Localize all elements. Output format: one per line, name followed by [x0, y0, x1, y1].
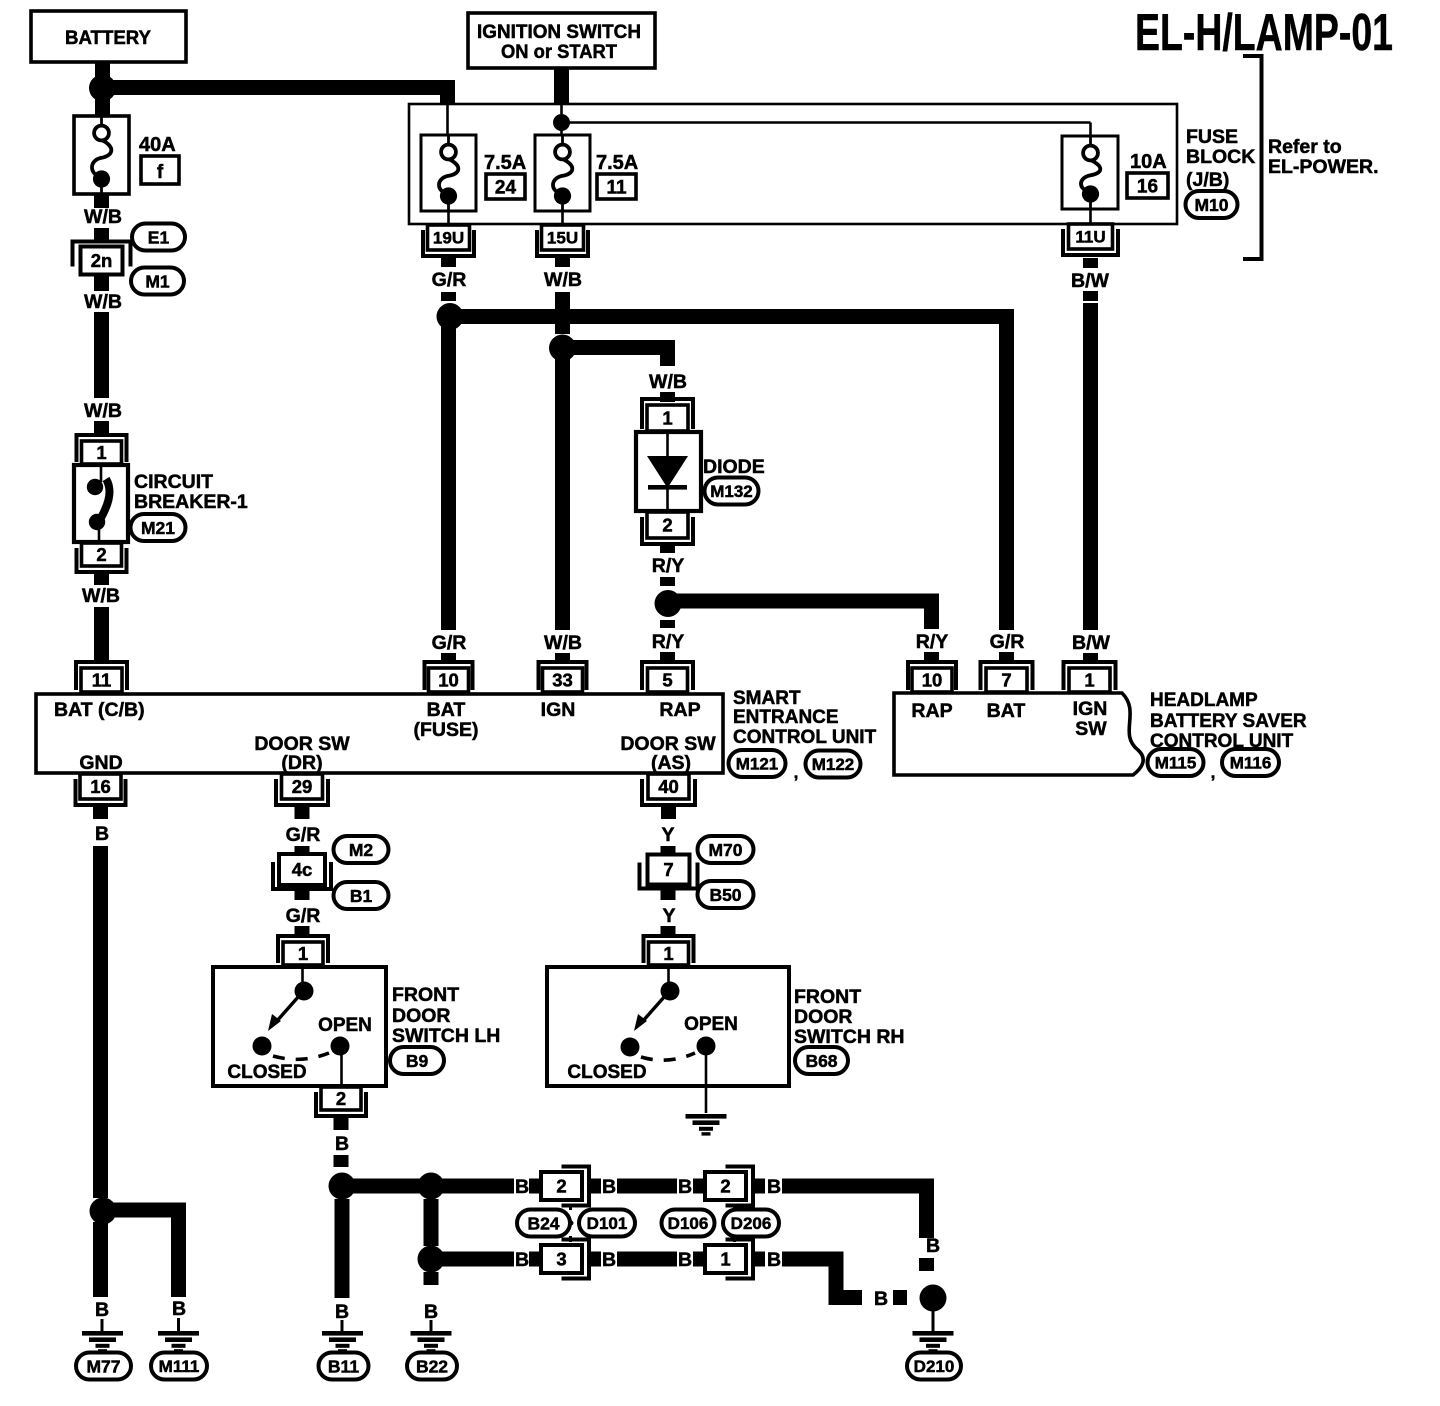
wire drop to fuse 16 [1089, 123, 1092, 137]
wire fuse 24 to 19U [447, 211, 450, 224]
svg-text:f: f [157, 162, 164, 183]
svg-text:G/R: G/R [990, 631, 1025, 653]
wire B stub [529, 1252, 541, 1267]
fuse 16 10A [1062, 136, 1118, 209]
svg-text:M2: M2 [349, 840, 374, 860]
svg-text:11: 11 [92, 670, 112, 691]
front door switch LH pin 2 [316, 1087, 366, 1116]
svg-text:BAT: BAT [427, 699, 466, 721]
svg-text:IGNITION SWITCH: IGNITION SWITCH [477, 21, 641, 43]
connector M21 [131, 514, 186, 541]
connector 5 RAP [642, 662, 693, 692]
fuse number 16 [1127, 173, 1168, 198]
svg-text:1: 1 [720, 1249, 730, 1270]
svg-text:EL-POWER.: EL-POWER. [1268, 156, 1379, 178]
wire fusible link to 2n [94, 194, 109, 208]
connector B1 [334, 882, 389, 909]
svg-text:SWITCH LH: SWITCH LH [392, 1025, 500, 1047]
svg-text:M77: M77 [86, 1356, 120, 1376]
wire B stub [589, 1179, 601, 1194]
front door switch RH pin 1 [644, 936, 694, 965]
svg-text:M116: M116 [1230, 754, 1272, 773]
node B junction D210 [920, 1285, 947, 1312]
connector 2n [73, 242, 131, 275]
svg-text:5: 5 [662, 670, 672, 691]
svg-text:RAP: RAP [659, 699, 700, 721]
connector 4c [273, 854, 331, 889]
wire B dash to node [893, 1290, 907, 1305]
headlamp connector 1 IGN SW [1064, 662, 1116, 692]
svg-text:,: , [794, 763, 799, 782]
wire B dash [334, 1155, 349, 1167]
wire stub to headlamp 10 [924, 652, 939, 662]
node B junction mid [418, 1173, 445, 1200]
svg-text:D106: D106 [668, 1214, 709, 1233]
wire GND stub [93, 805, 108, 819]
wire battery feed to fuse 24 [446, 104, 449, 135]
svg-text:11U: 11U [1075, 228, 1105, 247]
svg-text:W/B: W/B [544, 269, 582, 291]
wire stub to headlamp 7 [999, 652, 1014, 662]
svg-text:BAT (C/B): BAT (C/B) [54, 699, 145, 721]
svg-text:1: 1 [663, 943, 673, 964]
svg-text:G/R: G/R [286, 824, 321, 846]
svg-text:B68: B68 [805, 1051, 837, 1071]
connector D101 [579, 1210, 635, 1237]
svg-text:BREAKER-1: BREAKER-1 [134, 491, 248, 513]
svg-text:B/W: B/W [1071, 270, 1110, 292]
wire to fuse 11 [560, 128, 563, 136]
wire B dash [919, 1258, 934, 1271]
svg-text:W/B: W/B [544, 632, 582, 654]
connector B50 [698, 881, 754, 908]
svg-text:2: 2 [96, 544, 106, 565]
svg-text:M115: M115 [1155, 754, 1197, 773]
wire W/B from 15U [555, 292, 570, 334]
fuse number 24 [486, 174, 525, 199]
wire B ground run [93, 846, 108, 1198]
svg-text:FUSE: FUSE [1186, 126, 1238, 148]
svg-text:M122: M122 [812, 755, 855, 774]
wire 11U stub [1083, 258, 1098, 268]
node R/Y junction [655, 590, 682, 617]
svg-text:M21: M21 [141, 518, 175, 538]
svg-text:SMART: SMART [733, 688, 801, 709]
wire diode pin 2 stub [660, 543, 675, 553]
wire ignition inside fuse block [560, 104, 563, 114]
svg-text:16: 16 [90, 776, 111, 797]
svg-text:FRONT: FRONT [392, 984, 459, 1006]
svg-text:CLOSED: CLOSED [567, 1062, 646, 1083]
svg-text:FRONT: FRONT [794, 986, 861, 1008]
diode M132 [636, 432, 701, 511]
wire W/B to connector 11 [94, 607, 109, 650]
svg-text:SW: SW [1075, 718, 1107, 740]
wire B bus to drop [782, 1179, 934, 1194]
ground symbol door switch RH [686, 1114, 727, 1136]
ground symbol D210 [913, 1331, 954, 1353]
wire stub below 4c [295, 886, 310, 900]
node B junction row2 [418, 1246, 445, 1273]
fuse 24 7.5A [421, 135, 476, 211]
svg-text:OPEN: OPEN [684, 1014, 738, 1035]
svg-text:B: B [95, 823, 109, 845]
svg-text:Y: Y [661, 824, 674, 846]
wire stub to circuit breaker pin 1 [94, 421, 109, 433]
wire drop to M111 ground [171, 1203, 186, 1297]
wire B stub [693, 1252, 705, 1267]
wire stub to diode pin 1 [660, 392, 675, 402]
wire stub above 7 [661, 846, 676, 856]
wire DOOR SW DR stub [295, 805, 310, 819]
wire B bus [617, 1252, 677, 1267]
connector D106/D206 pin 2 [705, 1167, 753, 1206]
wire stub below 7 [661, 885, 676, 900]
svg-text:HEADLAMP: HEADLAMP [1150, 690, 1258, 711]
connector 16 GND [76, 774, 126, 805]
svg-text:40: 40 [658, 776, 679, 797]
ground M111 [151, 1353, 207, 1380]
wire stub to connector 10 [441, 653, 456, 662]
wire W/B down to SECU 33 [555, 348, 570, 630]
svg-text:IGN: IGN [541, 699, 576, 721]
connector 33 IGN [539, 662, 587, 692]
svg-text:BATTERY: BATTERY [65, 27, 151, 49]
svg-text:B: B [515, 1176, 529, 1198]
connector D106 [662, 1210, 715, 1237]
connector B9 [390, 1047, 444, 1074]
wire thin to ground M77 [101, 1319, 104, 1332]
svg-text:EL-H/LAMP-01: EL-H/LAMP-01 [1135, 4, 1393, 62]
svg-text:B: B [602, 1249, 616, 1271]
wire B drop right [919, 1179, 934, 1238]
svg-text:OPEN: OPEN [318, 1015, 372, 1036]
wire B dash below junction [424, 1272, 439, 1285]
svg-text:7: 7 [663, 859, 673, 880]
connector M116 [1222, 749, 1279, 776]
svg-text:SWITCH RH: SWITCH RH [794, 1026, 905, 1048]
svg-text:33: 33 [552, 670, 573, 691]
svg-text:W/B: W/B [82, 585, 120, 607]
ground B11 [319, 1353, 369, 1380]
svg-text:M1: M1 [145, 271, 170, 291]
svg-text:Refer to: Refer to [1268, 136, 1342, 158]
svg-text:B/W: B/W [1072, 632, 1111, 654]
svg-text:B: B [678, 1176, 692, 1198]
wire B bus row2 [431, 1252, 514, 1267]
connector 15U [537, 225, 588, 256]
svg-text:IGN: IGN [1073, 698, 1108, 720]
bracket refer to EL-POWER [1243, 56, 1262, 259]
svg-text:(FUSE): (FUSE) [414, 719, 479, 741]
svg-text:B50: B50 [709, 885, 741, 905]
svg-text:2: 2 [662, 515, 672, 536]
svg-text:2: 2 [336, 1088, 346, 1109]
wire stub to connector 33 [555, 653, 570, 662]
svg-text:E1: E1 [148, 227, 170, 247]
diode pin 2 [642, 512, 693, 544]
svg-text:B: B [515, 1249, 529, 1271]
svg-text:DOOR: DOOR [794, 1006, 853, 1028]
fusible link letter f [141, 156, 179, 184]
wire ignition switch feed [554, 68, 569, 104]
svg-text:R/Y: R/Y [652, 631, 685, 653]
wire stub below 2n [94, 275, 109, 291]
svg-text:G/R: G/R [286, 905, 321, 927]
wire R/Y drop [924, 594, 939, 629]
connector M1 [131, 268, 184, 295]
wire stub above connector 11 [94, 650, 109, 661]
wire 19U stub [441, 257, 456, 267]
ground D210 [907, 1353, 961, 1380]
svg-text:B22: B22 [416, 1356, 448, 1376]
svg-text:ENTRANCE: ENTRANCE [733, 707, 839, 728]
wire battery feed horizontal [103, 80, 456, 95]
wire to ground B11 [335, 1199, 350, 1298]
wire G/R upper dash [441, 292, 456, 301]
svg-text:ON or START: ON or START [501, 41, 617, 63]
connector D206 [723, 1210, 779, 1237]
fuse number 11 [597, 174, 636, 199]
connector B68 [795, 1047, 848, 1074]
wire W/B branch to diode [563, 340, 676, 355]
svg-text:B: B [678, 1249, 692, 1271]
svg-text:R/Y: R/Y [652, 555, 685, 577]
wire battery feed drop to fuse block [440, 81, 455, 104]
circuit breaker pin 2 [77, 543, 127, 572]
svg-text:7.5A: 7.5A [484, 152, 526, 174]
fusible link f 40A [74, 116, 129, 194]
wire B stub [589, 1252, 601, 1267]
svg-text:16: 16 [1137, 177, 1158, 198]
wire G/R down to SECU 10 [441, 317, 456, 631]
ground symbol B11 [322, 1331, 363, 1353]
svg-text:D206: D206 [731, 1214, 772, 1233]
ground symbol B22 [411, 1331, 452, 1353]
fuse block J/B outline [409, 104, 1177, 224]
wire thin to ground B11 [341, 1320, 344, 1332]
connector D106/D206 pin 1 [705, 1240, 753, 1279]
svg-text:,: , [1211, 763, 1216, 782]
wire switch LH pin 2 stub [334, 1118, 349, 1130]
svg-text:1: 1 [1084, 670, 1094, 691]
svg-text:D210: D210 [914, 1357, 955, 1376]
connector 19U [423, 225, 474, 256]
connector B24/D101 pin 2 [541, 1167, 589, 1206]
connector 7 body harness [640, 855, 698, 889]
svg-text:(AS): (AS) [651, 752, 691, 774]
svg-text:B: B [95, 1299, 109, 1321]
svg-text:B: B [424, 1301, 438, 1323]
connector 10 BAT FUSE [425, 662, 473, 692]
wire B stub [753, 1252, 765, 1267]
connector M122 [806, 751, 861, 778]
wire thin to ground M111 [177, 1318, 180, 1332]
wire B to dash [829, 1290, 862, 1305]
wire B bus short [782, 1252, 844, 1267]
wire B/W down to headlamp IGN SW [1083, 303, 1098, 630]
circuit breaker pin 1 [77, 435, 127, 464]
wire B bus row1 [342, 1179, 431, 1194]
wire B stub [693, 1179, 705, 1194]
svg-text:W/B: W/B [649, 371, 687, 393]
node ignition branch [553, 114, 570, 131]
svg-text:7.5A: 7.5A [596, 152, 638, 174]
wire branch to M111 [103, 1203, 186, 1218]
wire stub above 2n [94, 228, 109, 242]
wire fuse 16 to 11U [1089, 209, 1092, 223]
node B junction LH [329, 1173, 356, 1200]
wire thin to ground D210 [932, 1311, 935, 1332]
circuit breaker body [74, 465, 128, 542]
fuse 11 7.5A [535, 135, 590, 211]
connector 11U [1063, 224, 1118, 255]
svg-text:W/B: W/B [84, 291, 122, 313]
svg-text:RAP: RAP [911, 700, 952, 722]
wire G/R branch to headlamp BAT [450, 309, 1014, 324]
switch LH internals [253, 967, 350, 1086]
svg-text:BAT: BAT [987, 700, 1026, 722]
svg-text:CIRCUIT: CIRCUIT [134, 471, 213, 493]
headlamp connector 10 RAP [908, 662, 956, 692]
headlamp connector 7 BAT [981, 662, 1033, 692]
svg-text:M70: M70 [708, 840, 742, 860]
wire stub to switch RH pin 1 [661, 926, 676, 936]
svg-text:GND: GND [79, 752, 122, 774]
ground B22 [407, 1353, 457, 1380]
svg-text:1: 1 [96, 442, 106, 463]
wire B drop [829, 1252, 844, 1305]
connector M115 [1148, 749, 1204, 776]
svg-text:DIODE: DIODE [703, 456, 765, 478]
connector B24 [517, 1210, 570, 1237]
svg-text:10: 10 [438, 670, 459, 691]
connector 40 DOOR SW AS [642, 774, 695, 805]
smart entrance control unit box [36, 694, 723, 773]
wire battery stub [95, 62, 110, 78]
svg-text:CONTROL UNIT: CONTROL UNIT [733, 727, 877, 748]
svg-text:G/R: G/R [432, 632, 467, 654]
wire W/B drop to diode [660, 341, 675, 366]
connector E1 [132, 224, 185, 251]
svg-text:(DR): (DR) [281, 752, 322, 774]
svg-text:M111: M111 [159, 1357, 200, 1376]
wire fuse 11 to 15U [561, 211, 564, 224]
wire W/B to circuit breaker [94, 312, 109, 398]
front door switch RH box B68 [547, 967, 789, 1086]
wire DOOR SW AS stub [661, 805, 676, 819]
ground symbol M77 [82, 1331, 123, 1353]
svg-text:D101: D101 [587, 1214, 628, 1233]
svg-text:B: B [335, 1133, 349, 1155]
wire R/Y dash [660, 577, 675, 586]
svg-text:15U: 15U [547, 229, 578, 248]
ignition switch box [468, 13, 655, 68]
node G/R junction [437, 303, 464, 330]
svg-text:4c: 4c [292, 859, 313, 880]
svg-text:B24: B24 [527, 1213, 559, 1233]
svg-text:BLOCK: BLOCK [1186, 146, 1255, 168]
svg-text:B11: B11 [328, 1356, 359, 1376]
svg-text:Y: Y [662, 905, 675, 927]
wire R/Y branch to headlamp RAP [668, 594, 939, 609]
ground M77 [76, 1353, 131, 1380]
connector M2 [334, 836, 389, 863]
svg-text:B9: B9 [406, 1051, 429, 1071]
headlamp battery saver control unit box [894, 693, 1143, 775]
node W/B junction [549, 335, 576, 362]
connector 29 DOOR SW DR [276, 774, 328, 805]
ground symbol M111 [158, 1331, 199, 1353]
node battery junction [89, 75, 116, 102]
svg-text:M121: M121 [736, 755, 779, 774]
wire B/W dash [1083, 291, 1098, 301]
svg-text:DOOR: DOOR [392, 1005, 451, 1027]
wire stub to switch pin 1 [295, 926, 310, 936]
battery box [31, 11, 186, 62]
svg-text:40A: 40A [139, 134, 176, 156]
svg-text:10: 10 [922, 670, 943, 691]
wire B between junctions [424, 1199, 439, 1246]
node ground junction [90, 1198, 117, 1225]
svg-text:2: 2 [720, 1176, 730, 1197]
wire B stub [529, 1179, 541, 1194]
front door switch LH pin 1 [278, 936, 328, 965]
svg-text:3: 3 [556, 1249, 566, 1270]
connector B24/D101 pin 3 [541, 1240, 589, 1279]
wire B bus to label [431, 1179, 514, 1194]
svg-text:R/Y: R/Y [916, 631, 949, 653]
wire 15U stub [555, 257, 570, 267]
wire R/Y dash below node [660, 620, 675, 628]
connector M121 [729, 750, 786, 777]
wire stub to headlamp 1 [1083, 653, 1098, 662]
svg-text:11: 11 [606, 178, 627, 199]
svg-text:B: B [767, 1249, 781, 1271]
svg-text:7: 7 [1001, 670, 1011, 691]
wire circuit breaker pin 2 stub [94, 573, 109, 585]
svg-text:B: B [874, 1288, 888, 1310]
svg-text:1: 1 [298, 943, 308, 964]
wire battery to fusible link [95, 95, 110, 116]
wire B stub [753, 1179, 765, 1194]
connector M70 [698, 836, 754, 863]
svg-text:W/B: W/B [84, 206, 122, 228]
wire to M77 ground [93, 1222, 108, 1297]
connector M10 [1186, 191, 1238, 218]
svg-text:B: B [926, 1235, 940, 1257]
svg-text:19U: 19U [433, 229, 464, 248]
wire stub to connector 5 [660, 652, 675, 662]
svg-text:M132: M132 [710, 482, 753, 501]
wire B bus [617, 1179, 677, 1194]
svg-text:B: B [602, 1176, 616, 1198]
svg-text:CLOSED: CLOSED [227, 1062, 306, 1083]
svg-text:B: B [767, 1176, 781, 1198]
svg-text:24: 24 [495, 178, 517, 199]
front door switch LH box B9 [213, 967, 386, 1086]
svg-text:W/B: W/B [84, 400, 122, 422]
svg-text:B1: B1 [350, 886, 373, 906]
switch RH internals [621, 967, 716, 1113]
connector M132 [705, 478, 759, 505]
connector 11 BAT C/B [76, 662, 127, 692]
svg-text:29: 29 [292, 776, 313, 797]
svg-text:G/R: G/R [432, 269, 467, 291]
wire G/R drop to headlamp connector 7 [999, 310, 1014, 630]
svg-text:BATTERY SAVER: BATTERY SAVER [1150, 711, 1307, 732]
svg-text:10A: 10A [1130, 151, 1167, 173]
